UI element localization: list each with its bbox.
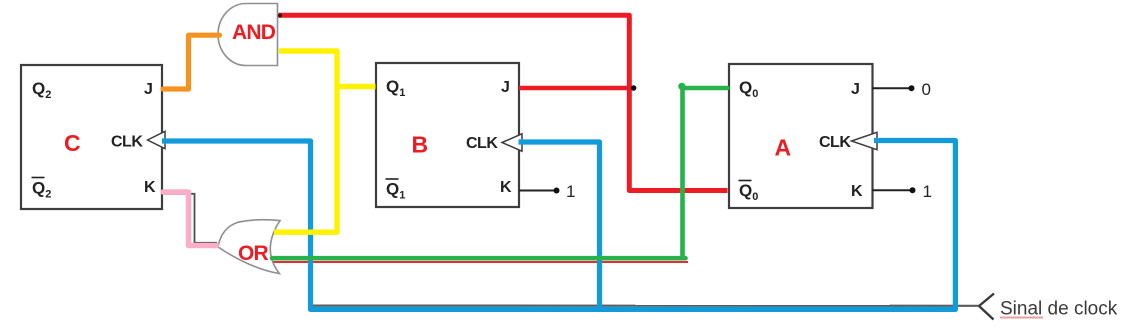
wire gray under pink from K of C to OR output xyxy=(163,194,217,243)
svg-text:J: J xyxy=(501,79,510,96)
svg-text:J: J xyxy=(851,81,860,98)
svg-text:CLK: CLK xyxy=(111,134,143,151)
svg-text:1: 1 xyxy=(923,182,932,201)
wire blue clock from CLK of C down xyxy=(162,141,955,310)
svg-text:CLK: CLK xyxy=(466,135,498,152)
svg-text:0: 0 xyxy=(922,80,931,99)
svg-text:K: K xyxy=(500,179,512,196)
junction dark dot at AND red input xyxy=(278,13,282,17)
svg-text:K: K xyxy=(144,179,156,196)
wire orange from J of C to AND output xyxy=(163,35,220,89)
wire yellow branch to Q1 of B xyxy=(335,84,376,89)
clock source symbol xyxy=(979,294,994,320)
clock label underline (spellcheck) xyxy=(1000,317,1043,319)
flip-flop B box xyxy=(376,63,519,207)
svg-text:C: C xyxy=(64,130,81,156)
svg-text:1: 1 xyxy=(566,182,575,201)
gate AND body xyxy=(218,4,277,66)
flip-flop A J wire to 0 xyxy=(872,87,909,89)
flip-flop B K pull wire to 1 xyxy=(519,190,554,192)
svg-text:Sinal de clock: Sinal de clock xyxy=(1000,299,1118,320)
wire green from OR input to Q0 of A xyxy=(272,88,728,258)
wire pink from K of C to OR output xyxy=(163,192,217,246)
flip-flop A box xyxy=(729,64,873,208)
wire yellow from Q1 of B to AND and OR inputs xyxy=(274,51,337,232)
wire clock gray line xyxy=(313,305,979,307)
svg-text:AND: AND xyxy=(232,21,276,44)
svg-text:CLK: CLK xyxy=(819,134,851,151)
flip-flop A clock wedge xyxy=(852,132,878,149)
flip-flop A K wire to 1 xyxy=(872,189,910,191)
junction green dot at Q0 xyxy=(678,83,685,90)
svg-text:OR: OR xyxy=(238,242,269,265)
flip-flop C clock wedge xyxy=(148,131,166,148)
wire red from J of B to red vertical xyxy=(519,86,631,91)
flip-flop B clock wedge xyxy=(502,134,522,151)
gate OR body xyxy=(218,220,280,274)
junction dot at J of B red xyxy=(631,85,637,91)
svg-text:K: K xyxy=(851,183,863,200)
svg-text:J: J xyxy=(144,81,153,98)
wire blue clock from CLK of B down xyxy=(519,142,600,309)
svg-text:A: A xyxy=(775,135,792,161)
wire thin red underline (net Q0bar original) xyxy=(272,261,688,263)
wire red from AND input to Q0bar of A xyxy=(279,15,728,190)
flip-flop C box xyxy=(21,65,162,209)
svg-text:B: B xyxy=(412,132,429,158)
